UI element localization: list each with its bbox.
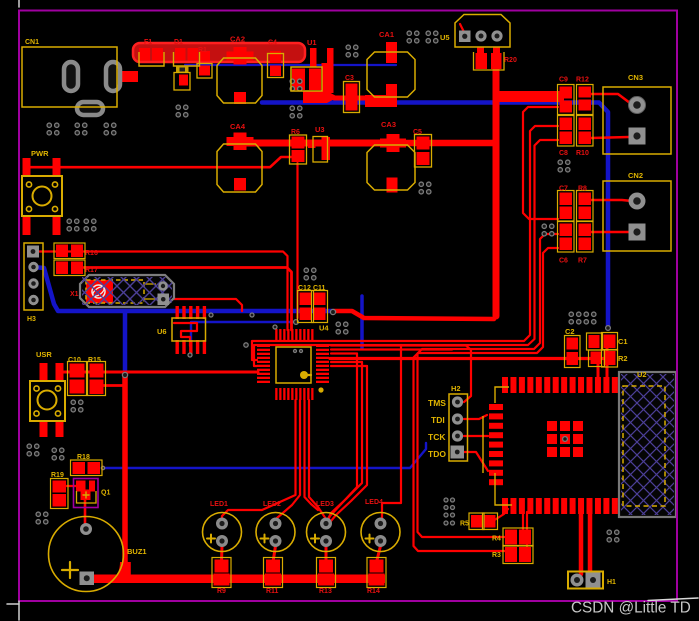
svg-text:LED1: LED1 — [210, 501, 228, 508]
svg-text:R12: R12 — [576, 77, 589, 84]
svg-text:C2: C2 — [565, 327, 575, 336]
svg-text:R1: R1 — [198, 47, 207, 54]
svg-text:TMS: TMS — [428, 398, 446, 408]
svg-text:CA4: CA4 — [230, 122, 246, 131]
svg-text:LED4: LED4 — [365, 499, 383, 506]
svg-text:R3: R3 — [492, 552, 501, 559]
svg-text:U6: U6 — [157, 327, 167, 336]
svg-text:LED2: LED2 — [263, 501, 281, 508]
svg-text:R13: R13 — [319, 588, 332, 595]
svg-text:R19: R19 — [51, 472, 64, 479]
svg-text:U4: U4 — [319, 324, 329, 333]
svg-text:TDI: TDI — [431, 415, 445, 425]
svg-text:F1: F1 — [144, 39, 152, 46]
svg-text:C8: C8 — [559, 150, 568, 157]
svg-text:C4: C4 — [268, 40, 277, 47]
svg-text:U1: U1 — [307, 38, 317, 47]
svg-text:R4: R4 — [492, 536, 501, 543]
svg-text:R6: R6 — [291, 129, 300, 136]
svg-text:R17: R17 — [85, 267, 98, 274]
svg-text:R20: R20 — [504, 57, 517, 64]
svg-text:D1: D1 — [174, 39, 183, 46]
svg-text:R2: R2 — [618, 354, 628, 363]
svg-text:Q1: Q1 — [101, 490, 110, 497]
svg-text:C6: C6 — [559, 258, 568, 265]
svg-text:TDO: TDO — [428, 449, 446, 459]
svg-text:USR: USR — [36, 350, 52, 359]
svg-text:H3: H3 — [27, 316, 36, 323]
svg-text:R8: R8 — [578, 186, 587, 193]
svg-text:X1: X1 — [70, 291, 79, 298]
svg-text:H2: H2 — [451, 384, 461, 393]
svg-text:R14: R14 — [367, 588, 380, 595]
svg-text:R7: R7 — [578, 258, 587, 265]
svg-text:C11: C11 — [313, 285, 326, 292]
svg-text:U2: U2 — [637, 370, 647, 379]
svg-text:R16: R16 — [85, 250, 98, 257]
svg-text:R9: R9 — [217, 588, 226, 595]
svg-text:R10: R10 — [576, 150, 589, 157]
svg-text:LED3: LED3 — [316, 501, 334, 508]
svg-text:C3: C3 — [345, 75, 354, 82]
svg-text:R5: R5 — [460, 521, 469, 528]
svg-text:H1: H1 — [607, 579, 616, 586]
svg-text:C10: C10 — [68, 357, 81, 364]
svg-text:PWR: PWR — [31, 149, 49, 158]
svg-text:CN2: CN2 — [628, 171, 643, 180]
svg-text:C7: C7 — [559, 186, 568, 193]
svg-text:U5: U5 — [440, 33, 450, 42]
svg-text:CN1: CN1 — [25, 39, 39, 46]
svg-text:C5: C5 — [413, 129, 422, 136]
svg-text:C12: C12 — [298, 285, 311, 292]
svg-text:CA2: CA2 — [230, 35, 245, 44]
svg-text:CA3: CA3 — [381, 120, 396, 129]
svg-text:U3: U3 — [315, 125, 325, 134]
svg-text:C9: C9 — [559, 77, 568, 84]
svg-text:R18: R18 — [77, 454, 90, 461]
svg-text:C1: C1 — [618, 337, 628, 346]
svg-text:R15: R15 — [88, 357, 101, 364]
svg-text:CN3: CN3 — [628, 73, 643, 82]
svg-text:CSDN @Little TD: CSDN @Little TD — [571, 600, 691, 617]
svg-text:R11: R11 — [266, 588, 279, 595]
svg-text:CA1: CA1 — [379, 30, 394, 39]
svg-text:BUZ1: BUZ1 — [127, 547, 147, 556]
svg-text:TCK: TCK — [428, 432, 446, 442]
